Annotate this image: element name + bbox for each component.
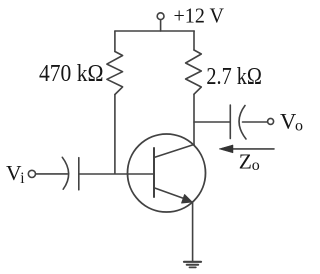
svg-text:470 kΩ: 470 kΩ bbox=[39, 60, 104, 87]
svg-text:o: o bbox=[252, 157, 260, 174]
svg-text:2.7 kΩ: 2.7 kΩ bbox=[206, 63, 262, 90]
svg-text:Z: Z bbox=[239, 149, 252, 173]
svg-text:+12 V: +12 V bbox=[174, 4, 225, 28]
svg-text:o: o bbox=[295, 118, 303, 135]
svg-text:V: V bbox=[280, 109, 296, 134]
svg-text:i: i bbox=[20, 170, 25, 187]
